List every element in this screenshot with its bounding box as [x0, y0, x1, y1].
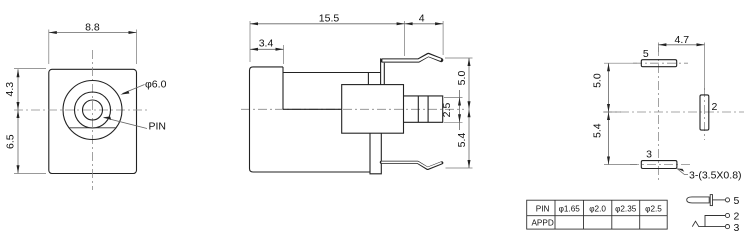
top slot local center line: [633, 62, 688, 64]
body front outline: [49, 69, 137, 173]
svg-text:6.5: 6.5: [4, 134, 16, 149]
svg-text:4.3: 4.3: [4, 82, 16, 97]
middle circle: [75, 92, 111, 128]
svg-text:φ1.65: φ1.65: [559, 205, 581, 214]
svg-text:PIN: PIN: [536, 205, 550, 214]
svg-text:APPD: APPD: [531, 218, 553, 227]
slot size leader 3-(3.5X0.8): [677, 169, 688, 175]
slot pad 2: [700, 95, 709, 130]
wire to 5: [713, 199, 726, 201]
dimension 4.7: [658, 43, 704, 91]
body right edge upper: [367, 73, 369, 85]
dimension 6.5: [14, 173, 46, 175]
svg-text:5.4: 5.4: [592, 123, 604, 138]
horizontal center line: [603, 111, 744, 113]
svg-text:3: 3: [734, 222, 740, 234]
wire pin3 with switch contact: [692, 221, 725, 226]
barrel groove lines: [418, 96, 428, 122]
outer circle φ6.0: [63, 81, 122, 140]
vertical center line: [657, 47, 659, 182]
dimension 5.0 / 5.4 left: [604, 63, 637, 164]
svg-text:4.7: 4.7: [674, 34, 689, 46]
label PIN leader: [104, 118, 148, 129]
vertical center line: [92, 50, 94, 190]
svg-text:5.0: 5.0: [456, 71, 468, 86]
axis center line: [241, 108, 464, 110]
svg-text:3: 3: [646, 149, 652, 161]
dimension 5.0 / 5.4 right: [445, 58, 473, 168]
svg-text:5.0: 5.0: [592, 73, 604, 88]
svg-text:3.4: 3.4: [259, 37, 274, 49]
cap divider vertical: [282, 67, 284, 109]
svg-text:3-(3.5X0.8): 3-(3.5X0.8): [689, 170, 742, 182]
dimension 15.5 and 4: [250, 21, 443, 62]
svg-text:5: 5: [643, 48, 649, 60]
svg-text:5.4: 5.4: [456, 133, 468, 148]
top bent pin: [382, 55, 441, 61]
svg-text:φ2.5: φ2.5: [645, 205, 662, 214]
svg-text:PIN: PIN: [149, 121, 167, 133]
bottom mounting peg: [370, 133, 381, 174]
svg-text:φ2.0: φ2.0: [589, 205, 606, 214]
svg-text:2: 2: [712, 101, 718, 113]
svg-text:8.8: 8.8: [85, 21, 100, 33]
inner circle (pin hole): [83, 100, 103, 120]
svg-text:φ6.0: φ6.0: [145, 79, 167, 91]
slot pad 3: [641, 161, 677, 169]
slot pad 5: [641, 60, 676, 67]
switch housing block: [342, 85, 404, 134]
terminal circle 2: [725, 213, 729, 217]
chord flat: [69, 127, 116, 129]
svg-text:φ2.35: φ2.35: [615, 205, 637, 214]
wire pin2: [705, 216, 725, 227]
body inner step line: [283, 108, 342, 110]
right slot local center line: [704, 88, 706, 140]
plug crossbar: [710, 195, 712, 206]
body outline (left cap + housing): [250, 67, 370, 172]
svg-text:5: 5: [734, 195, 740, 207]
dimension 4.3: [14, 68, 46, 70]
svg-text:2.5: 2.5: [441, 103, 453, 118]
svg-text:15.5: 15.5: [319, 12, 340, 24]
dimension 8.8: [49, 30, 137, 65]
table grid: [527, 200, 668, 229]
svg-text:2: 2: [734, 211, 740, 223]
label φ6.0 leader: [123, 85, 145, 94]
dimension 3.4: [283, 45, 285, 64]
terminal circle 3: [725, 225, 729, 229]
svg-text:4: 4: [419, 12, 425, 24]
bottom slot local center line: [630, 164, 690, 166]
body top edge: [283, 72, 381, 74]
plug barrel: [687, 197, 710, 203]
dimension 2.5: [444, 98, 463, 123]
top lug riser: [381, 58, 385, 84]
horizontal center line: [14, 109, 150, 111]
bottom bent pin: [381, 162, 442, 168]
terminal circle 5: [725, 198, 729, 202]
barrel with grooves: [404, 96, 443, 122]
